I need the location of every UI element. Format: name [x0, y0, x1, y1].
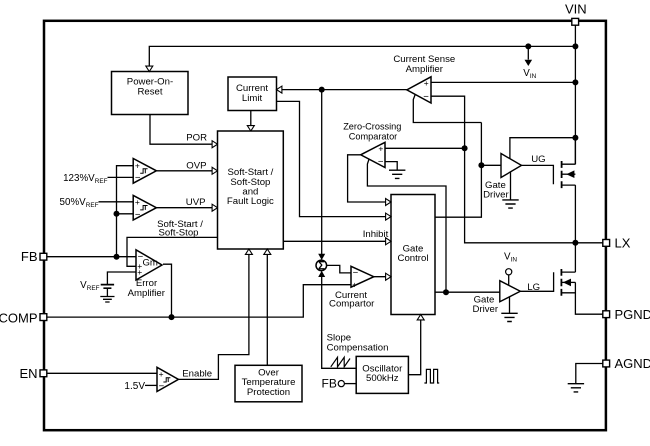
- node UVP minus junction: [114, 211, 120, 217]
- svg-text:EN: EN: [19, 366, 37, 381]
- wire UG output to high-side gate: [522, 165, 554, 184]
- wire enable output to fault logic: [178, 254, 249, 380]
- comparator UVP: [133, 195, 156, 220]
- svg-text:123%VREF: 123%VREF: [63, 173, 107, 185]
- outer IC boundary box: [44, 21, 606, 430]
- svg-text:500kHz: 500kHz: [366, 373, 399, 384]
- svg-text:Enable: Enable: [182, 368, 212, 379]
- svg-text:50%VREF: 50%VREF: [60, 197, 99, 209]
- arrow POR into fault logic: [212, 141, 217, 148]
- pin VIN: [565, 2, 587, 26]
- wire gate control UG output: [435, 123, 481, 218]
- comparator OVP: [133, 159, 156, 184]
- node LG line junction: [443, 289, 449, 295]
- label Current Sense Amplifier: [393, 54, 455, 75]
- buffer LG gate driver: [500, 281, 521, 302]
- wire oscillator ramp to summing node: [322, 276, 357, 369]
- node VIN rail / UG supply: [572, 135, 578, 141]
- svg-text:Reset: Reset: [137, 86, 162, 97]
- arrow enable into fault logic bottom: [245, 249, 252, 254]
- svg-text:+: +: [137, 267, 142, 277]
- svg-text:OVP: OVP: [186, 160, 206, 171]
- svg-text:UVP: UVP: [186, 197, 206, 208]
- op-amp Gm error amplifier: [136, 250, 162, 280]
- wire POR signal: [150, 115, 213, 145]
- wire UVP minus input: [117, 213, 134, 215]
- wire current sense amp output to current limit: [278, 89, 407, 91]
- transistor low-side MOSFET: [561, 243, 602, 314]
- comparator Enable: [157, 367, 178, 392]
- svg-text:VIN: VIN: [565, 2, 587, 17]
- wire oscillator clock to gate control: [408, 320, 420, 375]
- svg-text:−: −: [135, 209, 141, 220]
- wire AGND to ground: [576, 364, 603, 384]
- wire current limit to gate control: [277, 101, 391, 216]
- arrow oscillator into gate control bottom: [417, 315, 424, 320]
- wire ZC tap to LG gate line: [367, 159, 446, 292]
- svg-text:+: +: [424, 78, 429, 88]
- label Zero-Crossing Comparator: [343, 122, 401, 142]
- svg-text:Inhibit: Inhibit: [363, 229, 389, 240]
- svg-text:Comparator: Comparator: [349, 131, 398, 141]
- svg-text:+: +: [159, 369, 164, 379]
- wire POR supply line: [149, 46, 575, 71]
- arrow ZC into gate control: [386, 199, 391, 206]
- svg-text:Limit: Limit: [242, 93, 263, 104]
- block Oscillator 500kHz: [356, 356, 408, 393]
- svg-text:Amplifier: Amplifier: [406, 64, 444, 75]
- node CS output / summing feed: [319, 87, 325, 93]
- pin PGND: [603, 307, 650, 322]
- svg-text:LX: LX: [615, 236, 631, 251]
- wire error amp output to COMP: [163, 264, 172, 317]
- label Error Amplifier: [128, 278, 166, 299]
- ground LG gate driver: [501, 297, 517, 322]
- wire over temperature to fault logic: [266, 254, 268, 365]
- comparator zero-crossing: [361, 142, 385, 167]
- ground AGND: [568, 384, 584, 392]
- pin COMP: [0, 310, 47, 325]
- node VIN tap junction: [525, 43, 531, 49]
- label Soft-Start / Soft-Stop: [157, 219, 203, 238]
- pin EN: [19, 366, 46, 381]
- svg-text:+: +: [135, 197, 140, 207]
- svg-text:Control: Control: [398, 253, 429, 264]
- wire FB sense vertical chain: [117, 166, 134, 257]
- wire COMP line to current comparator: [47, 285, 351, 317]
- node FB junction: [114, 254, 120, 260]
- node LX junction: [572, 240, 578, 246]
- wire Inhibit: [283, 240, 391, 242]
- wire EN line: [47, 372, 157, 374]
- svg-text:−: −: [378, 157, 384, 168]
- ground VREF: [100, 297, 114, 303]
- svg-text:PGND: PGND: [615, 307, 650, 322]
- ground zero-crossing comparator: [389, 170, 405, 178]
- label Gate Driver LG: [473, 294, 499, 315]
- capacitor VREF reference: [101, 272, 136, 296]
- svg-text:FB: FB: [322, 377, 337, 391]
- amplifier current sense: [407, 77, 431, 103]
- svg-text:Protection: Protection: [247, 387, 290, 398]
- wire 123% VREF input: [108, 176, 134, 178]
- arrow current compartor into gate control: [386, 273, 391, 280]
- svg-text:−: −: [353, 267, 359, 278]
- wire summing output to current comparator: [327, 265, 351, 273]
- label Gate Driver UG: [483, 180, 509, 201]
- pin FB oscillator input: [322, 377, 357, 391]
- symbol clock pulses: [424, 369, 439, 383]
- wire current sense + input from VIN: [431, 81, 575, 83]
- arrow Inhibit into gate control: [386, 238, 391, 245]
- svg-text:Driver: Driver: [473, 304, 499, 315]
- node VIN rail / CS+: [572, 79, 578, 85]
- svg-text:Amplifier: Amplifier: [128, 288, 166, 299]
- svg-text:AGND: AGND: [615, 356, 650, 371]
- pin AGND: [603, 356, 650, 371]
- arrow into Current Limit from CS amp: [277, 86, 282, 93]
- block Gate Control: [391, 195, 435, 315]
- svg-text:COMP: COMP: [0, 310, 38, 325]
- arrow over temperature into fault logic bottom: [264, 249, 271, 254]
- svg-text:1.5V: 1.5V: [124, 381, 145, 392]
- svg-text:−: −: [135, 173, 141, 184]
- wire soft-start soft-stop to error amp: [127, 237, 218, 266]
- node UG driver input junction: [478, 162, 484, 168]
- wire current compartor output: [374, 276, 391, 278]
- arrow Current Limit into fault logic top: [247, 126, 254, 131]
- wire UG driver input: [481, 164, 501, 166]
- wire ZC minus to ground: [385, 162, 397, 170]
- svg-text:+: +: [135, 160, 140, 170]
- wire UG driver supply from VIN: [510, 138, 576, 160]
- svg-text:Soft-Stop: Soft-Stop: [159, 228, 199, 239]
- wire 50% VREF input: [99, 201, 134, 203]
- wire 1.5V reference input: [145, 384, 157, 386]
- wire current sense - input to LX sense: [431, 96, 603, 243]
- pin FB: [21, 249, 47, 264]
- wire gate control LG output: [435, 291, 500, 293]
- comparator current compartor: [351, 266, 374, 289]
- node summing junction circle: [316, 260, 327, 273]
- svg-text:Fault Logic: Fault Logic: [227, 196, 274, 207]
- transistor high-side MOSFET: [562, 138, 576, 243]
- svg-text:Gm: Gm: [142, 257, 157, 268]
- svg-text:Driver: Driver: [483, 190, 509, 201]
- wire zero-crossing + input: [385, 147, 465, 149]
- wire VIN tap arrow: [525, 46, 533, 66]
- svg-text:Zero-Crossing: Zero-Crossing: [343, 122, 401, 132]
- wire Current Limit down to fault logic: [250, 111, 252, 126]
- wire LG driver supply VIN: [504, 251, 517, 286]
- svg-text:Σ: Σ: [318, 261, 325, 273]
- node VIN rail / POR line: [572, 43, 578, 49]
- svg-text:UG: UG: [531, 154, 545, 165]
- node COMP junction: [169, 314, 175, 320]
- node ZC+ / LX sense junction: [462, 145, 468, 151]
- wire summing node feed vertical: [321, 90, 323, 255]
- pin LX: [603, 236, 631, 251]
- svg-text:VIN: VIN: [504, 251, 517, 263]
- block Power-On-Reset: [112, 72, 189, 115]
- block Over Temperature Protection: [235, 365, 302, 402]
- svg-text:POR: POR: [186, 133, 207, 144]
- svg-text:−: −: [423, 92, 429, 103]
- arrow UVP into fault logic: [212, 204, 217, 211]
- wire ZC output to gate control: [348, 155, 391, 202]
- label Current Compartor: [329, 290, 375, 309]
- svg-text:VREF: VREF: [80, 280, 99, 292]
- arrow OVP into fault logic: [212, 167, 217, 174]
- wire UVP output: [156, 207, 212, 209]
- svg-text:+: +: [352, 279, 357, 289]
- block Soft-Start Soft-Stop and Fault Logic: [218, 131, 284, 249]
- ground UG gate driver: [502, 172, 518, 208]
- svg-text:VIN: VIN: [523, 68, 536, 80]
- svg-text:+: +: [378, 143, 383, 153]
- symbol sawtooth waveform: [331, 357, 350, 367]
- label Slope Compensation: [327, 333, 389, 354]
- arrow current limit into gate control: [386, 213, 391, 220]
- svg-text:−: −: [159, 381, 165, 392]
- arrow into Power-On-Reset: [146, 66, 153, 71]
- svg-text:Compensation: Compensation: [327, 342, 389, 353]
- svg-text:Compartor: Compartor: [329, 298, 375, 309]
- buffer UG gate driver: [501, 154, 522, 178]
- arrow summing feed into summing node: [318, 254, 325, 260]
- arrow slope comp into summing node: [318, 271, 325, 277]
- block Current Limit: [228, 77, 277, 111]
- svg-text:FB: FB: [21, 249, 38, 264]
- wire FB line: [47, 256, 136, 258]
- wire CS amp tap to UG gate line: [413, 95, 481, 123]
- wire VIN rail vertical: [574, 25, 576, 164]
- wire OVP output: [156, 170, 212, 172]
- wire LG output to low-side gate: [520, 272, 553, 291]
